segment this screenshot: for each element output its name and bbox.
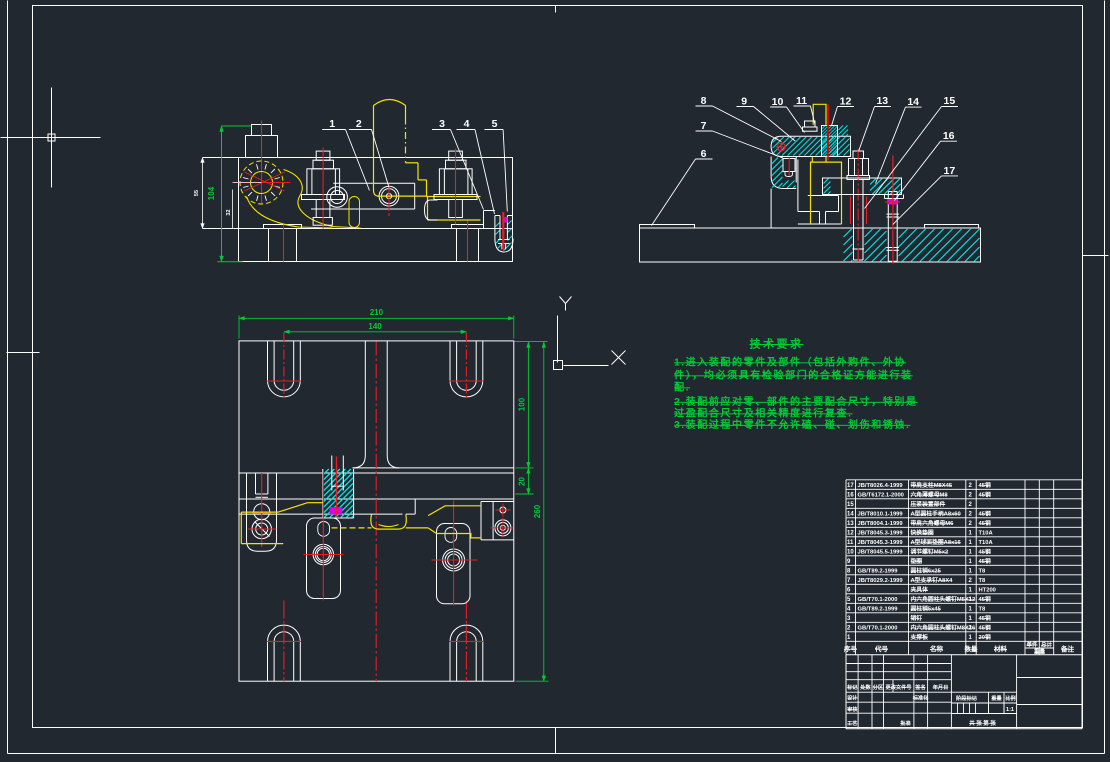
svg-text:签名: 签名 (914, 683, 925, 691)
svg-text:内六角圆柱头螺钉M8X16: 内六角圆柱头螺钉M8X16 (911, 624, 977, 632)
svg-text:55: 55 (194, 190, 200, 196)
svg-text:T10A: T10A (979, 531, 994, 537)
svg-text:带肩支柱M8X45: 带肩支柱M8X45 (911, 481, 953, 489)
svg-text:3: 3 (439, 118, 445, 130)
svg-text:140: 140 (368, 322, 382, 331)
svg-text:总计: 总计 (1041, 641, 1053, 649)
svg-text:GB/T89.2-1999: GB/T89.2-1999 (858, 569, 899, 575)
svg-text:20钢: 20钢 (979, 633, 991, 641)
svg-text:过盈配合尺寸及相关精度进行复查.: 过盈配合尺寸及相关精度进行复查. (674, 407, 852, 420)
svg-text:六角薄螺母M8: 六角薄螺母M8 (911, 491, 949, 499)
svg-text:HT200: HT200 (979, 588, 996, 594)
svg-text:序号: 序号 (843, 644, 858, 653)
svg-text:设计: 设计 (847, 694, 858, 702)
svg-text:件），均必须具有检验部门的合格证方能进行装: 件），均必须具有检验部门的合格证方能进行装 (674, 369, 913, 382)
svg-text:夹具体: 夹具体 (911, 586, 929, 594)
svg-text:2.装配前应对零、部件的主要配合尺寸，特别是: 2.装配前应对零、部件的主要配合尺寸，特别是 (674, 395, 918, 408)
svg-text:内六角圆柱头螺钉M5X12: 内六角圆柱头螺钉M5X12 (911, 595, 976, 603)
svg-text:45钢: 45钢 (979, 557, 991, 565)
svg-text:45钢: 45钢 (979, 481, 991, 489)
svg-text:45钢: 45钢 (979, 510, 991, 518)
svg-text:14: 14 (847, 512, 854, 518)
svg-text:100: 100 (518, 397, 527, 411)
svg-text:共 张 第 张: 共 张 第 张 (969, 719, 996, 727)
svg-text:压紧装置部件: 压紧装置部件 (911, 500, 946, 508)
svg-text:45钢: 45钢 (979, 595, 991, 603)
svg-text:A型支承钉A8X4: A型支承钉A8X4 (911, 576, 954, 584)
svg-text:调节螺钉M5x2: 调节螺钉M5x2 (911, 548, 949, 556)
svg-text:45钢: 45钢 (979, 519, 991, 527)
svg-text:A型圆柱手柄A8x60: A型圆柱手柄A8x60 (911, 510, 961, 518)
svg-text:210: 210 (370, 308, 384, 317)
svg-text:15: 15 (847, 502, 854, 508)
svg-text:7: 7 (701, 120, 707, 132)
svg-text:处数: 处数 (859, 683, 871, 691)
svg-text:JB/T8026.4-1999: JB/T8026.4-1999 (858, 483, 904, 489)
svg-text:审核: 审核 (847, 705, 858, 713)
svg-text:12: 12 (847, 531, 854, 537)
svg-text:10: 10 (847, 550, 854, 556)
svg-text:9: 9 (741, 95, 747, 107)
svg-text:45钢: 45钢 (979, 614, 991, 622)
svg-text:快换垫圈: 快换垫圈 (911, 529, 934, 537)
svg-text:JB/T8045.3-1999: JB/T8045.3-1999 (858, 531, 904, 537)
svg-text:8: 8 (701, 95, 707, 107)
svg-text:名称: 名称 (930, 644, 944, 653)
svg-text:垫圈: 垫圈 (911, 557, 923, 565)
svg-text:260: 260 (533, 504, 542, 518)
svg-text:T10A: T10A (979, 540, 994, 546)
svg-text:工艺: 工艺 (847, 719, 857, 727)
svg-text:阶段标记: 阶段标记 (956, 694, 978, 702)
svg-text:批准: 批准 (900, 719, 911, 727)
svg-text:6: 6 (701, 148, 707, 160)
svg-text:45钢: 45钢 (979, 624, 991, 632)
svg-text:单件: 单件 (1026, 641, 1038, 649)
svg-text:1.进入装配的零件及部件（包括外购件、外协: 1.进入装配的零件及部件（包括外购件、外协 (674, 356, 906, 369)
svg-text:备注: 备注 (1060, 644, 1075, 653)
svg-text:T8: T8 (979, 569, 987, 575)
svg-text:45钢: 45钢 (979, 548, 991, 556)
svg-text:圆柱销5x45: 圆柱销5x45 (911, 605, 942, 613)
svg-text:11: 11 (847, 540, 854, 546)
svg-text:标记: 标记 (846, 683, 858, 691)
svg-text:支撑板: 支撑板 (910, 633, 929, 641)
svg-text:重量: 重量 (1034, 648, 1046, 656)
svg-text:1:1: 1:1 (1006, 707, 1014, 713)
svg-text:15: 15 (944, 95, 956, 107)
svg-text:17: 17 (944, 165, 956, 177)
svg-text:A型球面垫圈A8x16: A型球面垫圈A8x16 (911, 538, 962, 546)
svg-text:16: 16 (943, 130, 955, 142)
svg-text:JB/T8045.3-1999: JB/T8045.3-1999 (858, 540, 904, 546)
svg-text:JB/T8029.2-1999: JB/T8029.2-1999 (858, 578, 904, 584)
svg-text:更改文件号: 更改文件号 (886, 683, 912, 691)
svg-text:16: 16 (847, 493, 854, 499)
svg-text:年月日: 年月日 (933, 683, 949, 691)
svg-text:4: 4 (464, 118, 470, 130)
svg-text:45钢: 45钢 (979, 491, 991, 499)
svg-text:JB/T8004.1-1999: JB/T8004.1-1999 (858, 521, 904, 527)
svg-text:GB/T70.1-2000: GB/T70.1-2000 (858, 597, 898, 603)
svg-text:代号: 代号 (874, 644, 889, 653)
svg-text:10: 10 (772, 96, 784, 108)
svg-text:材料: 材料 (993, 644, 1008, 653)
svg-text:重量: 重量 (991, 694, 1002, 702)
svg-text:带肩六角螺母M6: 带肩六角螺母M6 (911, 519, 955, 527)
svg-text:T8: T8 (979, 607, 987, 613)
svg-text:GB/T6172.1-2000: GB/T6172.1-2000 (858, 493, 904, 499)
svg-text:销钉: 销钉 (911, 614, 923, 622)
svg-text:3.装配过程中零件不允许磕、碰、划伤和锈蚀.: 3.装配过程中零件不允许磕、碰、划伤和锈蚀. (674, 418, 910, 431)
svg-text:20: 20 (518, 477, 527, 486)
svg-text:T8: T8 (979, 578, 987, 584)
svg-text:2: 2 (356, 118, 362, 130)
svg-text:比例: 比例 (1005, 694, 1015, 702)
svg-text:JB/T8010.1-1999: JB/T8010.1-1999 (858, 512, 904, 518)
svg-text:17: 17 (847, 483, 854, 489)
svg-text:13: 13 (847, 521, 854, 527)
svg-text:12: 12 (840, 95, 852, 107)
svg-text:标准化: 标准化 (912, 694, 929, 702)
svg-text:1: 1 (329, 118, 335, 130)
svg-text:JB/T8045.5-1999: JB/T8045.5-1999 (858, 550, 904, 556)
svg-text:13: 13 (876, 95, 888, 107)
svg-text:配.: 配. (674, 382, 690, 394)
svg-text:14: 14 (907, 96, 919, 108)
svg-text:分区: 分区 (873, 683, 884, 691)
svg-text:技术要求: 技术要求 (750, 337, 804, 351)
svg-text:5: 5 (492, 118, 498, 130)
svg-text:GB/T89.2-1999: GB/T89.2-1999 (858, 607, 899, 613)
svg-text:GB/T70.1-2000: GB/T70.1-2000 (858, 626, 898, 632)
svg-text:数量: 数量 (965, 644, 979, 653)
svg-text:32: 32 (226, 209, 232, 215)
svg-text:11: 11 (796, 95, 807, 107)
svg-text:104: 104 (207, 186, 216, 200)
svg-text:圆柱销6x25: 圆柱销6x25 (911, 567, 942, 575)
